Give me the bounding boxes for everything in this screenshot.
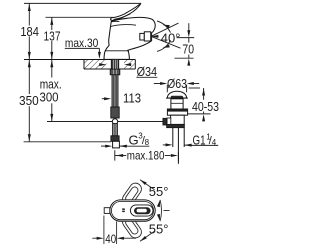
G3/8 nipple (113, 141, 120, 148)
tailpipe (173, 128, 184, 164)
deck slab with hatching (24, 60, 135, 70)
svg-text:113: 113 (123, 91, 141, 106)
svg-text:G: G (129, 133, 139, 148)
svg-text:70: 70 (182, 41, 194, 56)
svg-text:350: 350 (19, 93, 39, 108)
svg-text:G1: G1 (193, 132, 206, 147)
top view body capsule (110, 200, 155, 221)
check valve block (111, 107, 119, 118)
reference line 137 level (46, 16, 113, 18)
drain flange (167, 109, 187, 115)
G3/8 dimension lines and underline (101, 145, 149, 147)
svg-text:Ø63: Ø63 (167, 76, 187, 91)
dimension Ø34 arrows lines (98, 64, 133, 66)
dimension Ø63 lines (154, 84, 199, 93)
supply nut (111, 136, 119, 142)
top view (bottom) (104, 181, 155, 240)
ghost lever rotated up 55° (120, 181, 144, 208)
faucet lever blade (111, 3, 141, 20)
locknut (167, 124, 185, 127)
svg-text:55°: 55° (149, 222, 169, 237)
40 dimension (top view) (92, 216, 136, 245)
dome cap (167, 91, 186, 98)
top reference line (lever top) (24, 2, 141, 4)
dimension max300 line (51, 60, 53, 122)
svg-text:8: 8 (145, 138, 150, 147)
dimension 113 leader line (102, 98, 105, 100)
aerator box (140, 32, 151, 41)
drain neck (171, 99, 183, 109)
dimension texts (19, 24, 219, 246)
max.30 underline and leader (65, 48, 100, 52)
detail dots (122, 208, 125, 210)
lever top view (130, 205, 153, 216)
350 reference line (supply level) (24, 141, 111, 143)
dimension 184 line (28, 3, 30, 59)
pop-up drain assembly (163, 91, 188, 164)
drain body (171, 115, 185, 124)
faucet body side view (104, 17, 155, 59)
svg-text:40°: 40° (161, 31, 181, 46)
dimension 137 line (51, 17, 53, 59)
svg-text:137: 137 (44, 28, 61, 43)
arrowheads (28, 4, 205, 243)
dimension 70 (175, 23, 195, 58)
body seam lines (105, 21, 136, 50)
svg-text:Ø34: Ø34 (137, 64, 158, 79)
mounting shank threaded rod (110, 59, 120, 107)
svg-text:55°: 55° (149, 184, 169, 199)
G1 1/4 leader lines and underline (163, 144, 218, 147)
svg-text:4: 4 (212, 138, 217, 147)
svg-text:max.180: max.180 (127, 148, 165, 162)
svg-text:max.30: max.30 (65, 36, 99, 50)
spout nose (104, 208, 110, 214)
svg-text:40: 40 (105, 232, 116, 246)
pop-up rod line (47, 121, 163, 123)
max.180 dimension (115, 150, 179, 161)
pop-up rod pivot (112, 119, 117, 124)
dome dark ring (171, 96, 183, 99)
55° arcs and extension lines (140, 180, 170, 242)
40° rays (151, 23, 180, 48)
40° arcs (157, 21, 171, 51)
Ø34 underline (136, 76, 157, 78)
dimension 40-53 (183, 88, 211, 114)
lever inner line (113, 14, 130, 20)
svg-text:300: 300 (40, 90, 59, 105)
svg-text:184: 184 (20, 24, 39, 39)
svg-text:40-53: 40-53 (192, 99, 219, 114)
side port (163, 118, 167, 125)
ghost lever rotated down 55° (120, 214, 144, 241)
flexible hose segment (113, 124, 118, 136)
dimension 350 line (28, 60, 30, 142)
